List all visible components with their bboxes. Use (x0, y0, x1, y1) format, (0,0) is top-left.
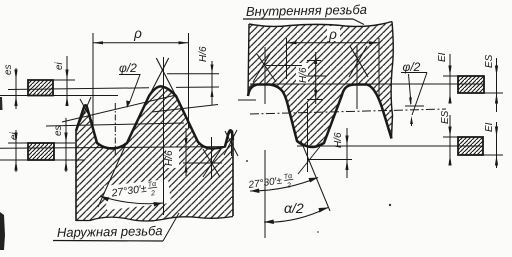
H/6 dimension upper right (298, 52, 326, 104)
tolerance zone rect4 (ES/EI lower right) (440, 110, 503, 168)
H/6 dimension upper left (198, 46, 214, 105)
svg-text:H/6: H/6 (198, 46, 209, 62)
crest line right figure (297, 145, 483, 147)
crest line left figure (8, 88, 149, 90)
tolerance zone rect3 (EI/ES upper right) (437, 52, 503, 112)
construction line B (46, 123, 184, 126)
construction line C (152, 105, 218, 113)
short dash between figures (238, 99, 256, 101)
svg-text:Наружная резьба: Наружная резьба (57, 223, 163, 240)
flank extension X at crest apex (149, 58, 176, 96)
root2 X cross left figure (203, 149, 221, 177)
svg-text:α/2: α/2 (284, 200, 304, 216)
svg-text:ρ: ρ (328, 27, 337, 42)
svg-text:ES: ES (440, 110, 451, 124)
angle annotation left figure (98, 144, 163, 207)
svg-text:ei: ei (9, 131, 20, 140)
H/6 dimension lower right (333, 128, 349, 178)
root line right figure (250, 83, 484, 85)
tooth1 centerline and flank extensions right figure (307, 103, 309, 172)
phi/2 label right (401, 60, 427, 126)
left tooth X cross (80, 97, 92, 122)
svg-text:H/6: H/6 (333, 132, 344, 148)
svg-text:φ/2: φ/2 (403, 60, 421, 74)
svg-text:H/6: H/6 (298, 67, 309, 83)
scan specks (389, 204, 391, 206)
root2 X cross right figure (349, 46, 368, 77)
angle annotation right figure (247, 150, 328, 238)
internal thread body (hatched) (248, 22, 393, 148)
svg-text:H/6: H/6 (164, 150, 175, 166)
svg-text:ρ: ρ (133, 26, 142, 41)
svg-text:es: es (53, 125, 64, 136)
slanted construction line A (62, 95, 176, 122)
svg-text:es: es (3, 64, 14, 75)
pitch dimension P (left figure) (93, 26, 189, 129)
root1 X cross right figure (253, 52, 276, 82)
crest line right of tooth (176, 86, 219, 88)
phi/2 label left (119, 61, 140, 108)
svg-text:EI: EI (484, 122, 495, 132)
tolerance zone rect1 (es/ei upper left) (0, 56, 118, 109)
svg-text:Внутренняя резьба: Внутренняя резьба (246, 2, 367, 19)
H/6 dimension lower left (164, 128, 188, 176)
tooth centerline left figure (163, 57, 165, 215)
svg-text:ei: ei (54, 61, 65, 70)
external thread body (hatched) (76, 86, 233, 221)
label Naruzhnaya rezba (53, 213, 179, 241)
apex line left figure (167, 73, 219, 75)
svg-text:EI: EI (437, 52, 448, 62)
root1 dash-dot centerline (114, 103, 116, 157)
pitch dash-dot line right figure (250, 109, 446, 114)
crest apex line right figure (308, 159, 352, 161)
root apex line left figure (183, 162, 222, 164)
tolerance zone rect2 (ei/es lower left) (0, 118, 85, 172)
label Vnutrennyaya rezba (243, 2, 367, 25)
svg-text:ES: ES (484, 54, 495, 68)
svg-text:φ/2: φ/2 (119, 61, 137, 75)
right tooth X cross (224, 130, 238, 156)
label knockouts (104, 26, 340, 210)
scan artifacts left margin (0, 97, 3, 110)
pitch dimension P (right figure) (287, 27, 380, 100)
root apex line right figure (266, 65, 302, 67)
root line left figure (0, 147, 222, 149)
